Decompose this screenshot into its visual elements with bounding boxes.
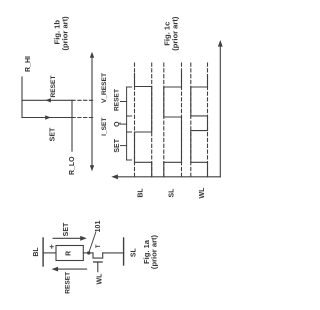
R_LO level line <box>71 100 73 151</box>
SET transition arrowhead <box>45 115 51 119</box>
RESET current arrow <box>55 268 87 270</box>
wire BL to resistor <box>43 252 56 254</box>
svg-text:(prior art): (prior art) <box>171 16 180 51</box>
Fig. 1a caption <box>142 234 159 269</box>
BL low dashed level <box>151 63 153 177</box>
R_HI label <box>25 56 32 72</box>
svg-text:SET: SET <box>49 127 56 141</box>
SET pointer tick <box>121 145 127 147</box>
bracket tick RESET end <box>127 86 132 88</box>
gate lead wire <box>97 262 99 272</box>
R_HI level line <box>21 77 23 118</box>
SET phase label <box>114 138 121 152</box>
Fig. 1b caption <box>52 16 69 51</box>
WL waveform <box>191 76 208 177</box>
RESET transition arrowhead <box>45 98 51 102</box>
SET current arrow <box>53 237 84 239</box>
SL electrode bar <box>123 238 125 265</box>
svg-text:R: R <box>65 251 72 256</box>
svg-text:WL: WL <box>97 273 104 285</box>
BL electrode bar <box>42 238 44 266</box>
BL high dashed level <box>134 63 136 177</box>
BL label <box>33 247 40 257</box>
svg-text:R_LO: R_LO <box>69 156 76 175</box>
WL high dashed level <box>190 63 192 177</box>
SL label <box>169 188 176 198</box>
svg-text:RESET: RESET <box>50 76 57 98</box>
svg-text:(prior art): (prior art) <box>60 16 69 51</box>
svg-text:SL: SL <box>130 248 137 258</box>
SET label <box>63 222 70 236</box>
BL waveform <box>135 74 152 177</box>
svg-text:WL: WL <box>199 187 206 199</box>
I_SET axis label <box>101 118 108 136</box>
node 101 leader line <box>89 233 96 252</box>
transistor T label <box>96 244 102 248</box>
node 101 junction dot <box>87 251 90 254</box>
resistor R body <box>56 246 83 261</box>
node 101 label <box>95 221 102 233</box>
SL high dashed level <box>163 63 165 177</box>
Q phase label <box>114 121 121 127</box>
svg-text:SET: SET <box>114 138 121 152</box>
SL low dashed level <box>181 63 183 177</box>
SET label <box>49 127 56 141</box>
bracket tick SET end <box>127 159 132 161</box>
SL waveform <box>164 72 182 177</box>
wire transistor to SL <box>103 252 124 254</box>
dashed projection V_RESET <box>72 99 94 101</box>
svg-text:Q: Q <box>114 121 121 127</box>
svg-text:RESET: RESET <box>64 272 71 294</box>
WL label <box>97 273 104 285</box>
WL label <box>199 187 206 199</box>
value axis with left arrow <box>115 176 221 178</box>
svg-text:(prior art): (prior art) <box>150 234 159 269</box>
svg-text:I_SET: I_SET <box>101 118 108 136</box>
svg-text:101: 101 <box>95 221 102 233</box>
SET transition line <box>22 117 72 119</box>
plus polarity mark <box>50 245 53 248</box>
svg-text:RESET: RESET <box>113 89 120 111</box>
bracket tick Q/SET <box>127 131 132 133</box>
R_LO label <box>69 156 76 175</box>
WL low dashed level <box>207 63 209 177</box>
svg-text:BL: BL <box>33 247 40 257</box>
svg-text:SL: SL <box>169 188 176 198</box>
RESET label <box>64 272 71 294</box>
BL label <box>137 188 144 198</box>
RESET phase label <box>113 89 120 111</box>
phase bracket stem <box>121 87 132 160</box>
RESET pointer tick <box>121 101 127 103</box>
svg-text:V_RESET: V_RESET <box>101 73 108 103</box>
wire resistor to node 101 <box>83 252 93 254</box>
SL label <box>130 248 137 258</box>
RESET label <box>50 76 57 98</box>
svg-text:T: T <box>96 244 102 248</box>
bracket tick RESET/Q <box>127 115 132 117</box>
Fig. 1c caption <box>163 16 180 51</box>
resistor R value label <box>65 251 72 256</box>
time axis with up arrow <box>219 43 221 177</box>
voltage axis double arrow <box>91 55 93 168</box>
svg-text:SET: SET <box>63 222 70 236</box>
Q pointer tick <box>121 123 127 125</box>
transistor T channel notch <box>93 253 103 258</box>
transistor gate bar <box>94 261 103 263</box>
RESET transition line <box>22 99 72 101</box>
svg-text:BL: BL <box>137 188 144 198</box>
svg-text:R_HI: R_HI <box>25 56 32 72</box>
dashed projection I_SET <box>72 117 94 119</box>
V_RESET axis label <box>101 73 108 103</box>
